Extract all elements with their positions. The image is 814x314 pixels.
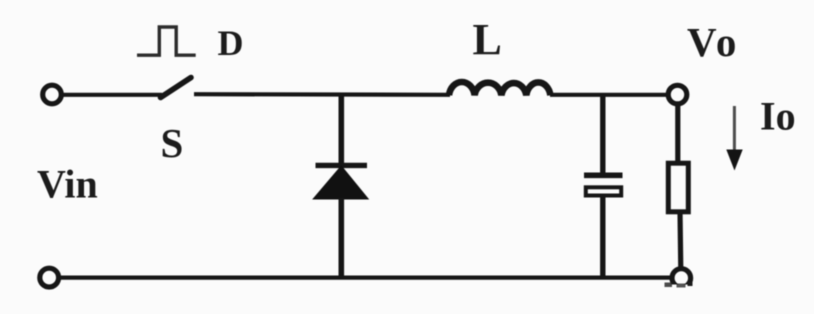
svg-text:Vin: Vin (37, 162, 98, 207)
label D (duty pulse) (218, 23, 244, 63)
diode D1 triangle (anode, pointing up) (313, 166, 368, 199)
label L (473, 15, 502, 64)
gate pulse waveform symbol (137, 27, 196, 55)
wire: capacitor down to bottom rail (600, 198, 605, 278)
wire: resistor down to bottom-right terminal (677, 211, 683, 270)
wire: top-rail diode junction down to diode cathode (338, 93, 344, 164)
output terminal bottom-right (partially faded) (660, 269, 702, 303)
wire: output terminal down to resistor (675, 103, 680, 162)
svg-text:Io: Io (760, 94, 796, 139)
wire: switch to inductor (through diode node) (194, 92, 450, 97)
label Vo (687, 19, 739, 65)
bottom rail wire (58, 276, 672, 280)
svg-text:Vo: Vo (687, 19, 739, 65)
svg-text:D: D (218, 23, 244, 63)
label Io (760, 94, 796, 139)
load current arrow Io shaft (733, 106, 736, 151)
wire: inductor to output terminal (through capacitor node) (550, 93, 669, 97)
svg-text:S: S (161, 120, 184, 166)
svg-text:L: L (473, 15, 502, 64)
resistor R load (hollow rectangle) (668, 163, 688, 212)
inductor L (4 humps) (449, 82, 550, 95)
input terminal top-left (43, 85, 62, 104)
wire: top-left terminal to switch (63, 93, 162, 97)
wire: capacitor node down to capacitor top plate (600, 93, 605, 173)
switch S blade (161, 78, 192, 98)
capacitor C bottom plate (hollow rectangle) (586, 187, 621, 195)
output terminal top-right (668, 85, 687, 104)
diode D1 (freewheeling) cathode bar (316, 163, 368, 168)
label S (switch) (161, 120, 184, 166)
input terminal bottom-left (40, 268, 59, 287)
label Vin (37, 162, 98, 207)
load current arrow Io head (726, 150, 742, 171)
wire: diode anode down to bottom rail (338, 198, 344, 278)
capacitor C top plate (solid) (584, 173, 623, 179)
